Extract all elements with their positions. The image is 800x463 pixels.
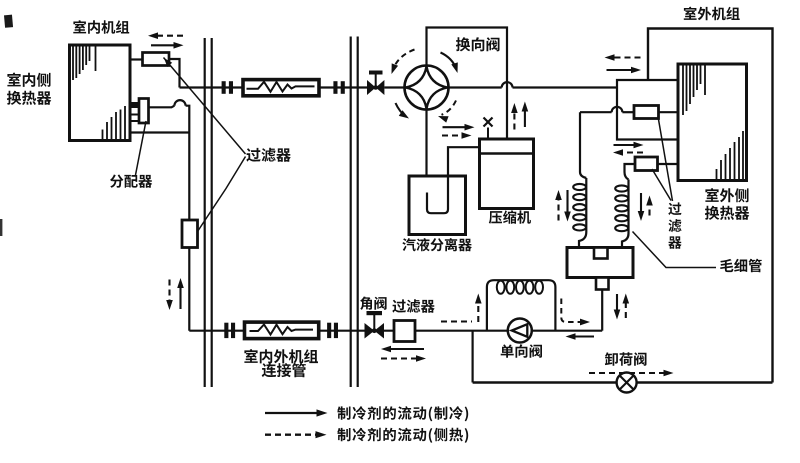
leader filter1 to label — [658, 117, 673, 202]
flow arrow solid left below pipe right — [566, 333, 595, 340]
flow arrow solid right mid outdoor — [614, 142, 644, 149]
leader to indoor top filter with arrowhead — [164, 58, 246, 155]
flow arrow dashed up left of capillaries — [555, 190, 562, 221]
outdoor heat exchanger fins hatching — [683, 66, 743, 180]
indoor top filter box — [143, 53, 170, 66]
outdoor filters label 过滤器 vertical — [668, 202, 681, 248]
bottom pipe — [189, 330, 602, 332]
wire indoor filter to top pipe corner — [169, 59, 180, 88]
wire filter1 line with jump — [580, 107, 634, 112]
wall line pair left — [205, 38, 212, 387]
compressor discharge line up-over — [427, 28, 508, 140]
distributor connection tab filled — [131, 102, 140, 108]
pipe valve down to separator — [425, 110, 427, 177]
outdoor filter 1 box — [634, 106, 659, 119]
outdoor unit bottom line with unloader — [473, 381, 773, 383]
flow arrow solid right outdoor top — [607, 67, 642, 74]
flange pair 2 bottom — [327, 323, 338, 338]
connecting pipe box bottom — [245, 322, 319, 339]
flow arrow solid right of valve — [443, 124, 475, 131]
curved arrow solid top-right of valve — [441, 53, 458, 74]
curved arrow dashed top-left of valve — [392, 50, 415, 75]
flange pair 1 bottom — [224, 323, 235, 338]
flow arrow solid down left of capillaries — [564, 190, 571, 222]
legend dashed arrow — [265, 431, 327, 438]
pipe reversing valve to right (with jump over discharge) — [449, 82, 618, 87]
wire HX to indoor filter — [130, 58, 143, 60]
check valve 单向阀 circle — [508, 319, 532, 343]
flow arrow dashed up right of capillaries — [646, 196, 653, 216]
capillary tube coil left — [573, 178, 586, 248]
capillary tube coil right — [615, 180, 628, 248]
leader capillary to label — [633, 232, 717, 268]
flow arrow solid right (cooling) indoor top — [151, 42, 184, 49]
top pipe left section — [180, 86, 368, 88]
pipe riser to HX top — [617, 80, 678, 88]
indoor heat exchanger fins hatching — [73, 47, 125, 140]
outdoor unit label 室外机组 — [684, 7, 740, 21]
flow dashes toward bypass — [441, 321, 472, 323]
receiver down line — [601, 290, 603, 331]
bottom filter label 过滤器 — [392, 299, 434, 313]
legend text cooling 制冷剂的流动(制冷) — [337, 406, 468, 421]
reversing valve 换向阀 circle — [405, 66, 449, 110]
compressor box — [480, 139, 534, 209]
down pipe to bottom line — [188, 133, 190, 331]
flow arrow dashed right above unloader — [589, 370, 674, 377]
compressor label 压缩机 — [489, 210, 531, 224]
flange pair 1 top pipe — [222, 81, 233, 94]
flow arrow solid up near down pipe — [177, 278, 184, 309]
flow arrow solid up at discharge — [522, 102, 529, 128]
distributor connection tab open — [131, 115, 140, 122]
unloader valve 卸荷阀 circle-X — [617, 373, 637, 393]
filters label 过滤器 — [246, 148, 290, 162]
wire filter1 corner down to left capillary — [580, 112, 586, 178]
flow arrow dashed right below bottom pipe — [381, 355, 426, 362]
wire filter2 to right capillary — [625, 164, 636, 180]
receiver top stub — [594, 248, 608, 259]
reversing valve star — [406, 67, 448, 109]
unloader label 卸荷阀 — [605, 352, 647, 366]
restrictor zigzag top — [247, 82, 315, 92]
flow arrow dashed left mid outdoor — [613, 149, 643, 156]
angle valve 角阀 — [365, 311, 385, 339]
indoor unit label 室内机组 — [73, 20, 129, 34]
flow arrow dashed up at discharge — [511, 103, 518, 130]
distributor label 分配器 — [110, 175, 152, 188]
leader to down pipe filter — [198, 157, 246, 232]
flow arrow dashed down near down pipe — [166, 280, 173, 311]
compressor service valve X — [484, 118, 493, 140]
flow arrow dashed right of valve — [442, 132, 472, 139]
bottom filter box — [394, 321, 415, 342]
service valve on top pipe (bowtie) — [367, 71, 384, 96]
flow dashed hook right of bypass — [561, 299, 590, 326]
outdoor unit boundary — [648, 29, 773, 383]
wire distributor to down pipe (with jump) — [149, 100, 190, 132]
flow arrow dashed left outdoor top — [605, 54, 641, 61]
outdoor side HX label 室外侧换热器 — [705, 188, 749, 220]
restrictor zigzag bottom — [250, 325, 314, 335]
gas-liquid separator box — [409, 176, 466, 235]
capillary label 毛细管 — [720, 259, 762, 273]
wall line pair right — [351, 37, 358, 388]
flow arrow solid left below bottom pipe — [381, 346, 424, 353]
connecting pipe label 室内外机组连接管 — [244, 349, 318, 377]
outdoor heat exchanger box — [678, 64, 747, 181]
connecting pipe box top — [243, 80, 319, 96]
flow arrow solid down right of capillaries — [638, 193, 645, 221]
wire filter1 to HX — [659, 111, 679, 113]
curved arrow dashed bottom-right of valve — [438, 101, 456, 123]
bypass coil loops — [497, 281, 543, 294]
top pipe valve to reversing valve — [384, 86, 404, 88]
separator label 汽液分离器 — [402, 238, 471, 251]
page corner mark — [4, 15, 13, 28]
reversing valve label 换向阀 — [456, 37, 500, 51]
flow arrow dashed up into bypass — [475, 294, 482, 323]
indoor heat exchanger box — [70, 45, 131, 141]
indoor side heat exchanger label 室内侧换热器 — [7, 73, 51, 105]
curved arrow solid bottom-left of valve — [396, 103, 410, 119]
outdoor filter 2 box — [635, 157, 658, 171]
leader filter2 to label — [652, 169, 671, 201]
flow arrow dashed up below receiver — [623, 294, 630, 319]
wire filter2 to HX — [658, 163, 679, 165]
unloader T branch — [472, 331, 474, 383]
pipe descender to HX mid — [617, 88, 678, 140]
check valve bypass coil — [487, 280, 556, 331]
filter on down pipe — [182, 220, 198, 248]
flow arrow dashed left (heating) indoor top — [148, 32, 183, 39]
wire HX bottom to down pipe — [130, 131, 189, 133]
legend text heating 制冷剂的流动(制热) — [337, 428, 468, 443]
separator U tube and suction to compressor — [427, 147, 480, 213]
receiver bottom stub — [596, 278, 609, 290]
distributor 分配器 body — [139, 99, 149, 124]
page edge tick — [0, 219, 2, 236]
check valve triangle — [512, 324, 528, 337]
flow arrow solid down below receiver — [614, 294, 621, 320]
angle valve label 角阀 — [360, 297, 387, 310]
receiver-distributor box — [567, 248, 633, 278]
flange pair 2 top pipe — [333, 81, 344, 94]
compressor top band line — [480, 152, 534, 154]
check valve label 单向阀 — [501, 344, 542, 358]
legend solid arrow — [265, 409, 328, 416]
leader line to distributor — [136, 121, 147, 175]
